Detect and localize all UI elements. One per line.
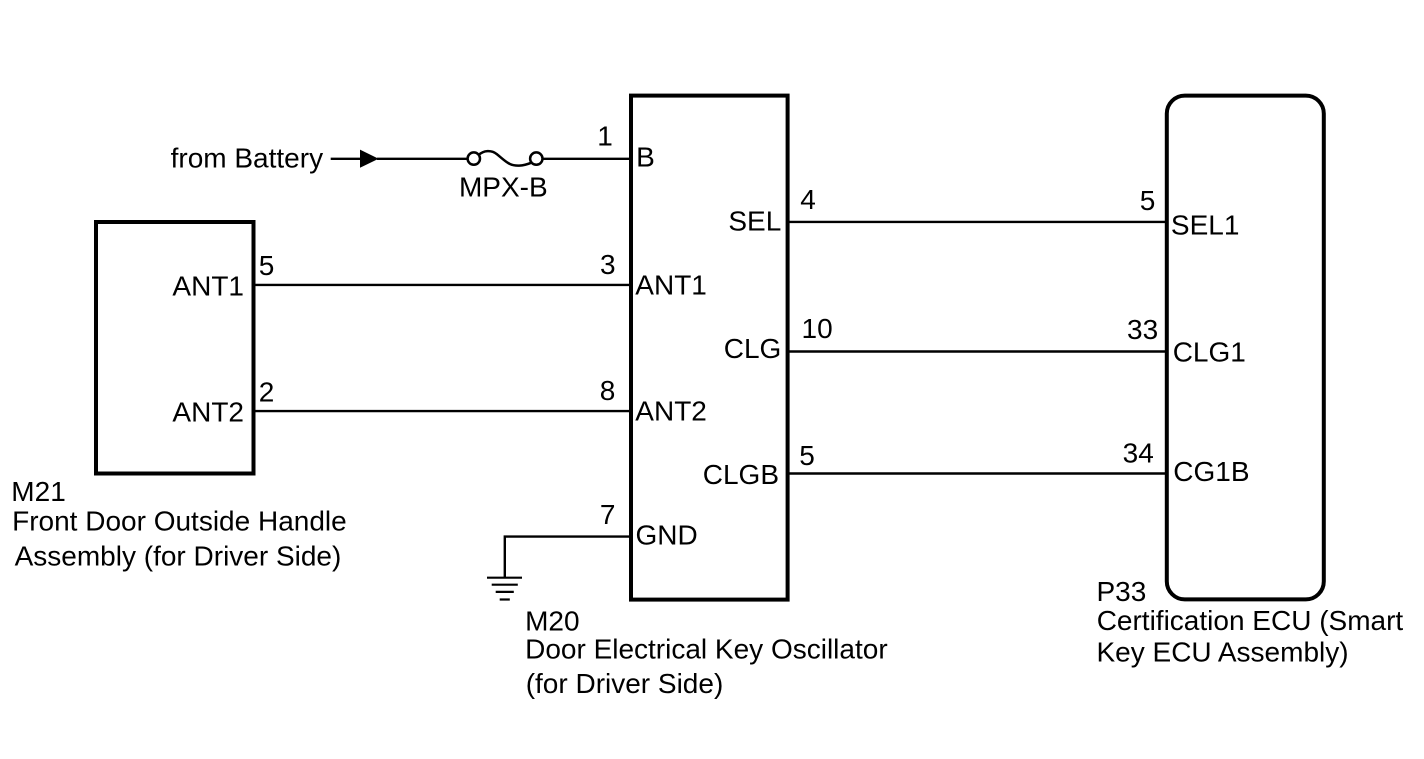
svg-text:8: 8 xyxy=(600,375,616,406)
wire SEL xyxy=(788,221,1167,223)
ground symbol xyxy=(487,578,522,600)
connector box P33 (rounded) xyxy=(1167,96,1324,600)
svg-text:3: 3 xyxy=(600,249,616,280)
svg-text:P33: P33 xyxy=(1097,576,1147,607)
svg-text:Certification ECU (Smart: Certification ECU (Smart xyxy=(1097,605,1404,636)
svg-text:1: 1 xyxy=(597,121,613,152)
svg-text:CLG: CLG xyxy=(724,333,782,364)
svg-text:from Battery: from Battery xyxy=(171,143,323,174)
svg-text:7: 7 xyxy=(600,499,616,530)
wire arrow to fuse xyxy=(377,158,467,160)
svg-text:5: 5 xyxy=(799,440,815,471)
svg-text:CLGB: CLGB xyxy=(703,459,779,490)
svg-text:4: 4 xyxy=(800,184,816,215)
svg-text:Door Electrical Key Oscillator: Door Electrical Key Oscillator xyxy=(525,634,888,665)
svg-text:Assembly (for Driver Side): Assembly (for Driver Side) xyxy=(15,540,342,571)
svg-text:MPX-B: MPX-B xyxy=(459,171,548,202)
wire CLGB xyxy=(788,472,1167,474)
svg-text:5: 5 xyxy=(1140,185,1156,216)
svg-text:5: 5 xyxy=(259,250,275,281)
svg-text:Front Door Outside Handle: Front Door Outside Handle xyxy=(12,506,347,537)
svg-text:(for Driver Side): (for Driver Side) xyxy=(526,668,724,699)
connector box M20 xyxy=(631,96,788,600)
arrow from battery xyxy=(331,150,379,168)
svg-text:ANT2: ANT2 xyxy=(635,396,707,427)
svg-text:ANT1: ANT1 xyxy=(172,270,244,301)
svg-text:M20: M20 xyxy=(525,606,579,637)
svg-text:34: 34 xyxy=(1123,438,1154,469)
svg-text:SEL: SEL xyxy=(728,206,781,237)
wire fuse to pin B xyxy=(543,158,631,160)
svg-text:B: B xyxy=(636,141,655,172)
svg-text:ANT1: ANT1 xyxy=(635,270,707,301)
wire GND xyxy=(505,537,631,578)
wire CLG xyxy=(788,350,1167,352)
svg-text:CG1B: CG1B xyxy=(1173,456,1249,487)
svg-text:ANT2: ANT2 xyxy=(172,397,244,428)
svg-text:33: 33 xyxy=(1127,314,1158,345)
wire ANT2 xyxy=(253,410,631,412)
fuse MPX-B xyxy=(468,151,543,165)
svg-text:GND: GND xyxy=(636,520,698,551)
svg-text:2: 2 xyxy=(259,376,275,407)
svg-text:M21: M21 xyxy=(11,476,65,507)
wire ANT1 xyxy=(253,284,631,286)
connector box M21 xyxy=(96,222,254,474)
svg-text:10: 10 xyxy=(802,313,833,344)
svg-text:CLG1: CLG1 xyxy=(1173,336,1246,367)
svg-text:SEL1: SEL1 xyxy=(1171,210,1240,241)
svg-text:Key ECU Assembly): Key ECU Assembly) xyxy=(1097,637,1349,668)
